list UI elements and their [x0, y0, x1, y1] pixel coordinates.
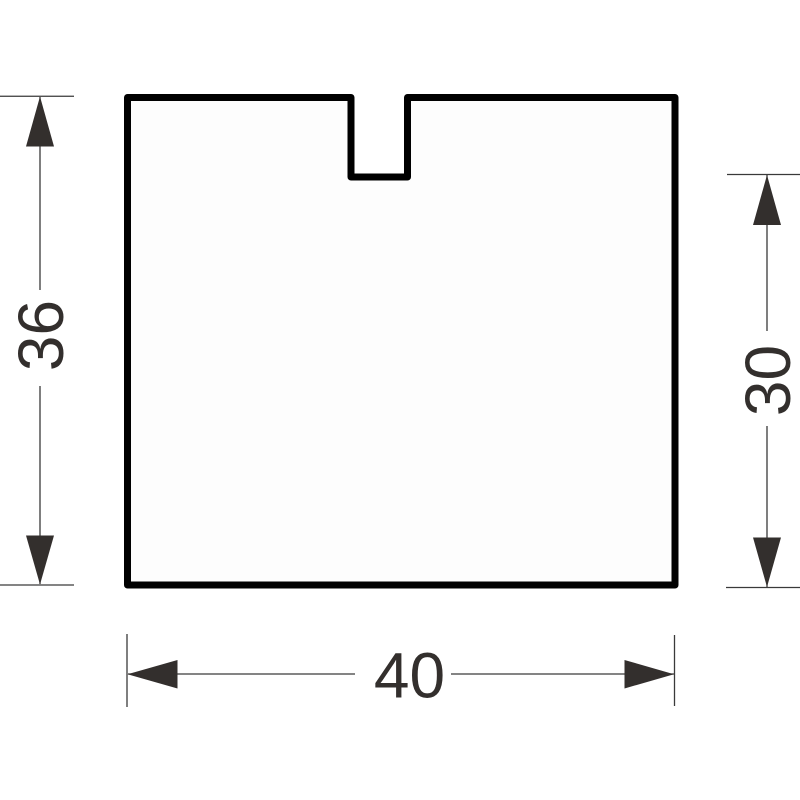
svg-text:40: 40 — [374, 640, 445, 712]
dim line right segment — [451, 673, 674, 675]
tick top-left — [0, 95, 74, 97]
tick top-right — [727, 174, 800, 176]
dim line lower segment — [39, 386, 41, 584]
dim line upper segment — [766, 175, 768, 331]
dimension 30 (right) — [726, 175, 800, 588]
arrow up (30) — [753, 175, 781, 225]
arrow right (40) — [625, 660, 675, 689]
svg-text:36: 36 — [5, 300, 77, 371]
arrow down (30) — [753, 538, 781, 588]
dimension 40 (bottom) — [127, 634, 675, 707]
dimension 36 (left) — [0, 96, 74, 585]
dim line lower segment — [766, 426, 768, 587]
extension line left — [126, 634, 128, 707]
dim line upper segment — [39, 97, 41, 290]
arrow down (36) — [26, 536, 54, 585]
dim line left segment — [128, 673, 355, 675]
svg-text:30: 30 — [732, 345, 800, 416]
tick bottom-left — [0, 584, 74, 586]
arrow up (36) — [26, 97, 54, 147]
tick bottom-right — [726, 587, 800, 589]
part outline (notched rectangle) — [128, 98, 676, 586]
arrow left (40) — [128, 660, 178, 689]
extension line right — [674, 635, 676, 706]
